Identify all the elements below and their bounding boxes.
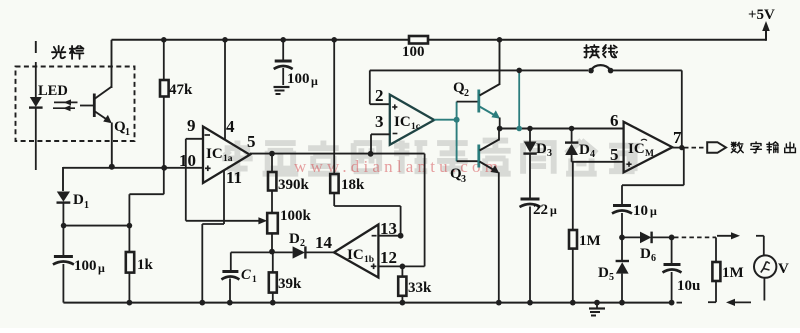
- svg-text:9: 9: [187, 116, 196, 135]
- wire: IC1a output net (pin5) to IC1c pin3 / IC1b pin12: [250, 154, 425, 267]
- svg-text:7: 7: [673, 128, 682, 147]
- junction: emitter node: [109, 164, 115, 170]
- svg-text:1M: 1M: [579, 233, 601, 249]
- diode D2: [272, 231, 334, 259]
- capacitor C1: [221, 267, 257, 303]
- svg-text:1b: 1b: [364, 255, 374, 265]
- svg-text:47k: 47k: [169, 82, 193, 98]
- connection hump symbol 接线: [588, 65, 613, 73]
- svg-text:4: 4: [590, 149, 595, 160]
- svg-text:D: D: [579, 142, 590, 158]
- resistor R 1M (meter shunt): [708, 237, 744, 302]
- resistor R 39k: [269, 252, 302, 303]
- wire: pin12 to feedback riser: [378, 265, 424, 267]
- svg-text:10: 10: [633, 203, 648, 219]
- capacitor 100u (top, supply bypass): [274, 40, 318, 88]
- diode D3: [523, 129, 552, 198]
- wire: 18k to IC1b pin13: [334, 206, 400, 236]
- junctions: top rail: [161, 37, 337, 43]
- svg-text:D: D: [598, 265, 609, 281]
- 数字输出 label (digital output): [731, 142, 795, 153]
- svg-text:D: D: [289, 231, 300, 247]
- svg-text:10u: 10u: [677, 278, 700, 294]
- diode D4: [565, 129, 595, 162]
- svg-text:2: 2: [300, 238, 305, 249]
- svg-text:LED: LED: [38, 83, 68, 99]
- svg-text:1a: 1a: [223, 154, 233, 164]
- svg-text:V: V: [778, 261, 789, 277]
- svg-text:2: 2: [375, 86, 384, 105]
- diode D5: [598, 237, 629, 302]
- svg-text:1c: 1c: [411, 122, 420, 132]
- svg-text:6: 6: [651, 253, 656, 264]
- op-amp IC1b (output on left): [315, 219, 397, 278]
- 接线 label: [584, 45, 617, 58]
- svg-text:6: 6: [610, 111, 619, 130]
- svg-text:3: 3: [375, 112, 384, 131]
- svg-text:+5V: +5V: [748, 7, 775, 23]
- svg-text:IC: IC: [206, 146, 223, 162]
- svg-text:1: 1: [252, 275, 257, 285]
- resistor R 390k: [268, 154, 310, 213]
- wire: IC1c output node: [434, 102, 477, 162]
- junction: pot/C1/D2/39k node: [269, 249, 275, 255]
- diode D1: [57, 192, 90, 226]
- wire: output feedback to 10u pump: [622, 148, 684, 204]
- svg-text:100: 100: [402, 44, 425, 60]
- svg-text:5: 5: [247, 132, 256, 151]
- svg-text:M: M: [645, 149, 654, 159]
- wire: dashed test lead (top): [674, 236, 716, 238]
- capacitor 100u (left): [53, 226, 105, 303]
- wire: LED anode stub to rail: [35, 41, 37, 53]
- resistor R 1M (comparator input): [569, 162, 601, 303]
- wire: comparator pin5: [572, 161, 624, 163]
- svg-text:5: 5: [609, 272, 614, 283]
- transistor Q2: [453, 40, 500, 129]
- comparator IC M: [610, 111, 682, 172]
- ground symbol (main): [589, 303, 605, 316]
- wire: IC1c pin3 from IC1a output: [371, 134, 390, 153]
- svg-text:10: 10: [179, 151, 196, 170]
- wire: IC1a pin9 input loop to pot wiper: [186, 139, 267, 225]
- resistor R 18k: [330, 40, 365, 206]
- test arrow (to meter +): [717, 235, 734, 237]
- junction: 47k crossing blob: [161, 165, 167, 171]
- svg-text:www.dianlantu.com: www.dianlantu.com: [294, 157, 502, 176]
- potentiometer R 100k: [267, 208, 311, 252]
- svg-text:100: 100: [287, 71, 310, 87]
- wire: +5V top rail: [112, 28, 767, 41]
- 光棒 label (light rod): [52, 46, 83, 59]
- output flag symbol: [707, 142, 726, 153]
- svg-text:IC: IC: [628, 141, 645, 157]
- svg-text:5: 5: [610, 145, 619, 164]
- LED D (emitting diode): [29, 62, 43, 170]
- capacitor 10u (output hold): [663, 237, 701, 302]
- wire: feedback net 接线 (IC1c pin2 / comparator output): [370, 70, 682, 147]
- svg-text:39k: 39k: [278, 276, 302, 292]
- resistor 100 (series in +5V rail): [402, 36, 428, 60]
- junctions: ground rail: [126, 300, 674, 306]
- wire: ground bottom rail: [63, 302, 682, 304]
- resistor R 33k: [398, 266, 432, 302]
- wire: riser from 接线 net to node: [518, 70, 520, 128]
- capacitor 22u: [520, 199, 558, 303]
- watermark: grey company text: [222, 141, 640, 177]
- voltmeter V: [754, 236, 789, 301]
- op-amp IC1c: [375, 86, 434, 145]
- svg-text:11: 11: [226, 168, 242, 187]
- wire: IC1a pin11 to ground rail: [202, 170, 224, 303]
- svg-text:1k: 1k: [137, 257, 154, 273]
- ground symbol (top bypass): [274, 87, 290, 94]
- svg-text:D: D: [536, 141, 547, 157]
- svg-text:1M: 1M: [722, 265, 744, 281]
- wire: D1 bottom / divider node: [63, 194, 163, 225]
- capacitor 10u (pump top): [612, 203, 657, 237]
- resistor R 47k: [160, 40, 193, 194]
- wire: Q2/Q3 node to comparator pin6: [500, 128, 624, 130]
- svg-text:3: 3: [547, 148, 552, 159]
- svg-text:18k: 18k: [341, 177, 365, 193]
- resistor R 1k: [126, 226, 154, 303]
- svg-text:IC: IC: [394, 114, 411, 130]
- svg-text:22: 22: [533, 202, 548, 218]
- svg-text:C: C: [241, 267, 251, 283]
- wire: pin13: [378, 235, 400, 237]
- wire: Q1 emitter / IC1a pin10 net: [63, 167, 203, 191]
- svg-text:μ: μ: [98, 261, 105, 275]
- svg-text:14: 14: [315, 233, 333, 252]
- wire: node to C1: [231, 252, 272, 270]
- svg-text:12: 12: [380, 248, 397, 267]
- light arrows from LED: [53, 99, 78, 111]
- svg-text:100: 100: [74, 258, 97, 274]
- wire: comparator output: [672, 147, 706, 149]
- svg-text:μ: μ: [650, 204, 657, 218]
- svg-text:1: 1: [125, 127, 130, 138]
- svg-text:3: 3: [461, 174, 466, 185]
- svg-text:μ: μ: [311, 74, 318, 88]
- svg-text:4: 4: [226, 117, 235, 136]
- svg-text:D: D: [73, 192, 84, 208]
- svg-text:IC: IC: [347, 247, 364, 263]
- +5V supply arrow: [748, 7, 775, 31]
- svg-text:1: 1: [84, 200, 89, 211]
- svg-text:390k: 390k: [278, 177, 310, 193]
- op-amp IC1a: [179, 116, 256, 187]
- svg-text:33k: 33k: [408, 280, 432, 296]
- svg-text:2: 2: [464, 88, 469, 99]
- svg-text:100k: 100k: [280, 208, 312, 224]
- svg-text:μ: μ: [550, 203, 557, 217]
- dashed enclosure box of optical head: [16, 67, 135, 142]
- test arrow (return): [732, 301, 751, 303]
- diode D6: [622, 232, 672, 264]
- phototransistor Q1: [80, 40, 130, 166]
- transistor Q3: [450, 129, 499, 303]
- svg-text:D: D: [640, 246, 651, 262]
- wire: IC1a pin4 to rail: [224, 40, 226, 140]
